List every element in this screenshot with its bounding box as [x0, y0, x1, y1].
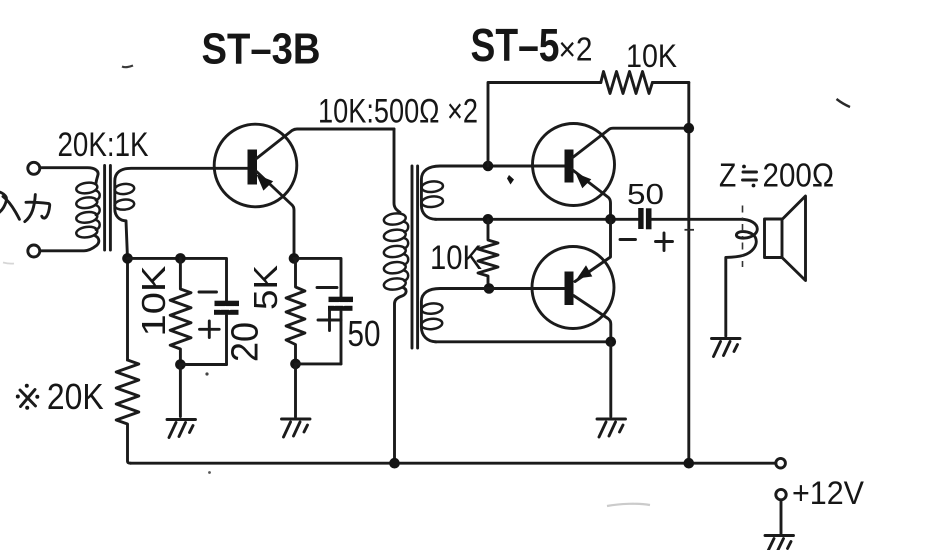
node A junction dot: [122, 253, 133, 264]
wire T2 lower winding bottom lead rail: [435, 340, 611, 343]
capacitor 20 polarity plus: [200, 321, 220, 338]
svg-text:10K:500Ω ×2: 10K:500Ω ×2: [318, 93, 478, 131]
junction dot resistor 10K top: [175, 253, 186, 264]
dust speck 2: [208, 471, 211, 474]
capacitor 20 polarity minus: [199, 291, 217, 294]
transistor Q1 collector wire to driver transformer: [257, 129, 395, 159]
transistor Q3 base bar: [565, 272, 574, 306]
svg-text:20: 20: [225, 322, 267, 362]
transformer T1 secondary winding: [114, 183, 135, 211]
capacitor 50 output polarity plus: [656, 233, 673, 251]
faint smudge bottom center: [607, 504, 650, 506]
transistor Q1 circle: [214, 124, 297, 207]
wire capacitor 20 bottom lead: [225, 315, 228, 364]
transformer T2 secondary lower winding: [421, 302, 443, 330]
transformer T1 core: [105, 166, 111, 251]
resistor 10K (top feedback) zigzag: [601, 72, 653, 94]
dust speck: [205, 372, 208, 375]
svg-text:200Ω: 200Ω: [763, 157, 835, 194]
svg-text:5K: 5K: [247, 265, 284, 310]
wire emitter node down to Q3 emitter: [575, 219, 611, 281]
wire right supply rail: [687, 83, 690, 464]
junction dot base feed: [483, 161, 494, 172]
wire capacitor 50 bottom lead: [340, 311, 343, 364]
wire bottom rail: [131, 462, 776, 465]
junction dot Q3 collector node: [606, 337, 617, 348]
wire network1 bottom bus: [180, 363, 226, 366]
stray tick on right rail: [685, 229, 695, 231]
wire ground stem network2: [294, 364, 297, 417]
capacitor 50 plates: [328, 297, 353, 311]
ground Q3 collector: [597, 419, 626, 437]
junction dot network2 bottom: [290, 359, 301, 370]
transistor Q3 collector wire down: [574, 296, 611, 342]
transformer T2 primary winding: [383, 212, 408, 291]
junction dot middle rail at 488: [483, 214, 494, 225]
junction dot network1 bottom: [175, 359, 186, 370]
label nyuryoku (input) drawn kanji: [0, 192, 50, 222]
transistor Q3 circle (lower output): [532, 247, 614, 329]
input terminal bottom: [28, 245, 40, 257]
wire middle rail (emitter rail): [435, 218, 638, 221]
junction dot Q1 emitter node: [289, 253, 300, 264]
wire T2 upper winding bracket, top lead to Q2 base: [421, 166, 564, 219]
junction dot emitter output node: [605, 214, 616, 225]
wire T2 lower winding bracket, top lead to Q3 base: [421, 289, 564, 342]
stray pencil mark top left: [122, 66, 133, 68]
wire ground stem network1: [179, 365, 182, 417]
resistor 10K (bias) zigzag: [170, 258, 191, 364]
svg-text:ST–5: ST–5: [471, 19, 560, 71]
label reference mark 20K: [16, 376, 104, 417]
stray pencil mark top right: [837, 99, 851, 107]
svg-text:20K: 20K: [47, 376, 104, 417]
terminal bottom rail (supply): [776, 458, 786, 468]
svg-text:10K: 10K: [626, 38, 677, 74]
resistor 20K zigzag (input shunt): [116, 360, 139, 463]
ground network2: [282, 419, 311, 437]
speaker driver box: [765, 219, 783, 258]
transistor Q1 base bar: [248, 150, 258, 185]
stray phase mark near Q2 base: [507, 175, 514, 185]
resistor 10K (inter-base) zigzag: [478, 219, 498, 288]
speaker horn: [782, 196, 806, 281]
transistor Q2 emitter wire with arrow: [572, 170, 611, 220]
junction dot Q2 collector on right rail: [684, 123, 695, 134]
capacitor 20 plates: [214, 301, 239, 315]
transformer T2 core: [412, 166, 418, 348]
wire Q3 collector to ground: [609, 342, 612, 417]
svg-text:Z: Z: [719, 157, 736, 194]
capacitor 50 polarity minus: [317, 286, 337, 289]
junction dot lower base feed: [484, 283, 495, 294]
transistor Q2 base bar: [565, 150, 574, 183]
junction dot T2 primary bottom on rail: [389, 458, 400, 469]
svg-text:+12V: +12V: [792, 475, 865, 511]
wire T1 secondary bracket and leads (top to Q1 base, bottom to node A): [115, 168, 248, 360]
svg-text:10K: 10K: [135, 266, 172, 337]
transistor Q2 collector wire to supply rail: [572, 128, 689, 158]
junction dot right rail bottom: [684, 458, 695, 469]
wire output rail through cap to voice coil: [652, 219, 758, 336]
wire +12V terminal to ground: [780, 500, 783, 534]
terminal +12V: [776, 489, 786, 499]
wire top rail with left drop: [488, 83, 601, 167]
transistor Q2 circle (upper output): [533, 124, 615, 206]
wire emitter node bus to capacitor 50: [294, 258, 341, 297]
svg-text:ST–3B: ST–3B: [202, 25, 321, 74]
title label ST-5 x2: [471, 19, 593, 71]
transformer T2 primary top lead from Q1 collector: [394, 129, 400, 212]
svg-text:×2: ×2: [559, 31, 593, 68]
svg-text:10K: 10K: [430, 239, 482, 277]
voice coil axis dash-dot line: [742, 206, 744, 268]
transformer T1 primary top lead wire: [40, 168, 98, 184]
transformer T2 primary bottom lead wire to bottom rail: [395, 288, 407, 464]
transformer T1 primary winding: [76, 181, 100, 238]
ground +12V: [765, 536, 794, 550]
faint smudge left mid: [3, 263, 14, 264]
input terminal top: [28, 162, 40, 174]
transistor Q3 emitter arrow: [577, 265, 592, 278]
wire top rail right segment: [652, 81, 688, 84]
resistor 5K zigzag: [286, 258, 305, 364]
svg-text:20K:1K: 20K:1K: [58, 126, 149, 164]
svg-text:50: 50: [627, 179, 664, 211]
wire node A bus to capacitor 20: [128, 258, 227, 300]
capacitor 50 output plates: [638, 208, 651, 229]
ground network1: [167, 420, 196, 438]
transformer T1 primary bottom lead wire: [41, 236, 99, 251]
capacitor 50 output polarity minus: [620, 238, 636, 241]
capacitor 50 polarity plus: [318, 311, 341, 331]
label Z=200ohm (speaker impedance): [719, 157, 834, 194]
wire network2 bottom bus: [296, 362, 342, 365]
ground speaker return: [712, 339, 741, 357]
transformer T2 secondary upper winding: [421, 180, 443, 208]
transistor Q1 emitter wire with arrow: [257, 172, 295, 259]
svg-text:50: 50: [348, 313, 381, 354]
